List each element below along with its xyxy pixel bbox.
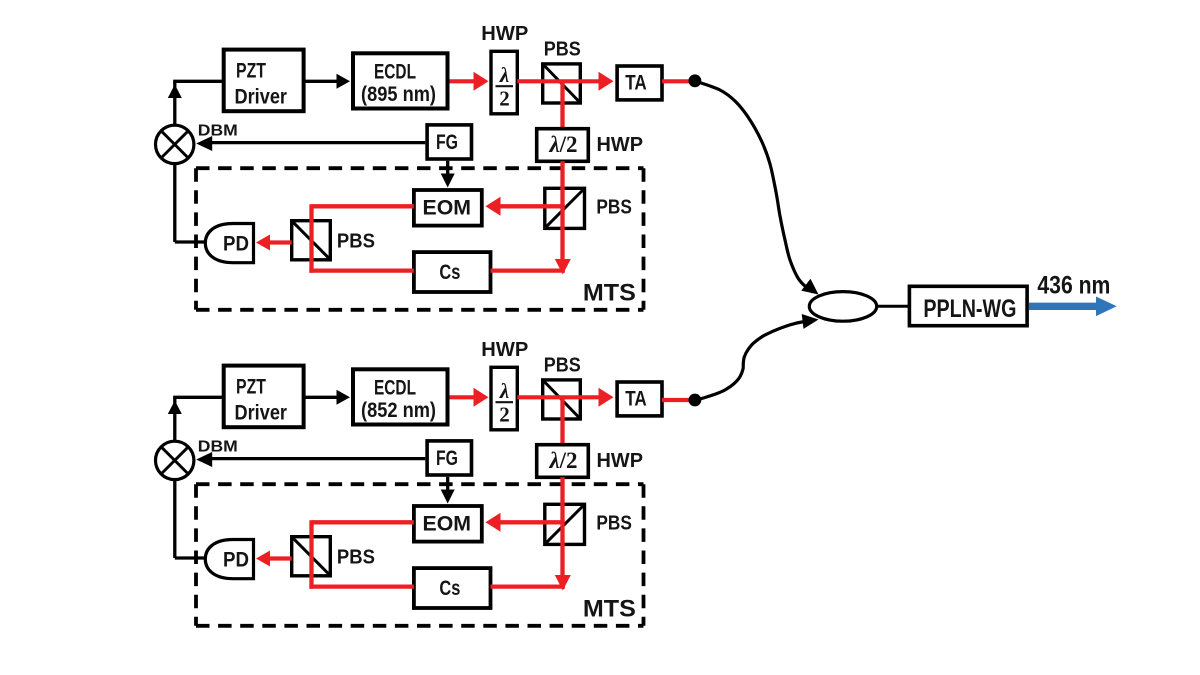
svg-text:PBS: PBS bbox=[544, 39, 581, 61]
svg-text:Driver: Driver bbox=[235, 86, 288, 109]
svg-text:λ/2: λ/2 bbox=[548, 132, 577, 157]
svg-text:HWP: HWP bbox=[481, 23, 528, 45]
svg-text:MTS: MTS bbox=[583, 596, 636, 623]
svg-text:(852 nm): (852 nm) bbox=[361, 399, 436, 422]
svg-text:λ: λ bbox=[499, 63, 509, 87]
svg-text:FG: FG bbox=[436, 131, 458, 154]
svg-text:PZT: PZT bbox=[236, 376, 266, 399]
svg-text:HWP: HWP bbox=[481, 339, 528, 361]
svg-text:PBS: PBS bbox=[337, 231, 375, 253]
svg-text:DBM: DBM bbox=[198, 123, 238, 140]
svg-text:PBS: PBS bbox=[544, 355, 581, 377]
svg-text:PD: PD bbox=[223, 548, 249, 571]
svg-text:λ/2: λ/2 bbox=[548, 448, 577, 473]
svg-text:TA: TA bbox=[625, 71, 647, 94]
svg-text:Driver: Driver bbox=[235, 402, 288, 425]
svg-text:λ: λ bbox=[499, 379, 509, 403]
svg-text:HWP: HWP bbox=[597, 450, 644, 472]
svg-text:HWP: HWP bbox=[597, 134, 644, 156]
svg-text:ECDL: ECDL bbox=[374, 60, 416, 83]
svg-text:2: 2 bbox=[499, 403, 510, 427]
svg-text:DBM: DBM bbox=[198, 439, 238, 456]
svg-text:ECDL: ECDL bbox=[374, 376, 416, 399]
svg-text:PBS: PBS bbox=[337, 547, 375, 569]
svg-text:PD: PD bbox=[223, 232, 249, 255]
svg-text:2: 2 bbox=[499, 87, 510, 111]
svg-text:TA: TA bbox=[625, 387, 647, 410]
svg-text:EOM: EOM bbox=[423, 512, 472, 535]
svg-text:MTS: MTS bbox=[583, 280, 636, 307]
svg-text:436 nm: 436 nm bbox=[1037, 271, 1110, 299]
svg-text:Cs: Cs bbox=[439, 577, 460, 600]
svg-text:PPLN-WG: PPLN-WG bbox=[923, 295, 1016, 323]
svg-text:FG: FG bbox=[436, 447, 458, 470]
svg-text:Cs: Cs bbox=[439, 261, 460, 284]
svg-text:PBS: PBS bbox=[596, 513, 632, 535]
svg-text:PBS: PBS bbox=[596, 197, 632, 219]
svg-text:PZT: PZT bbox=[236, 60, 266, 83]
svg-text:EOM: EOM bbox=[423, 196, 472, 219]
svg-text:(895 nm): (895 nm) bbox=[361, 83, 436, 106]
